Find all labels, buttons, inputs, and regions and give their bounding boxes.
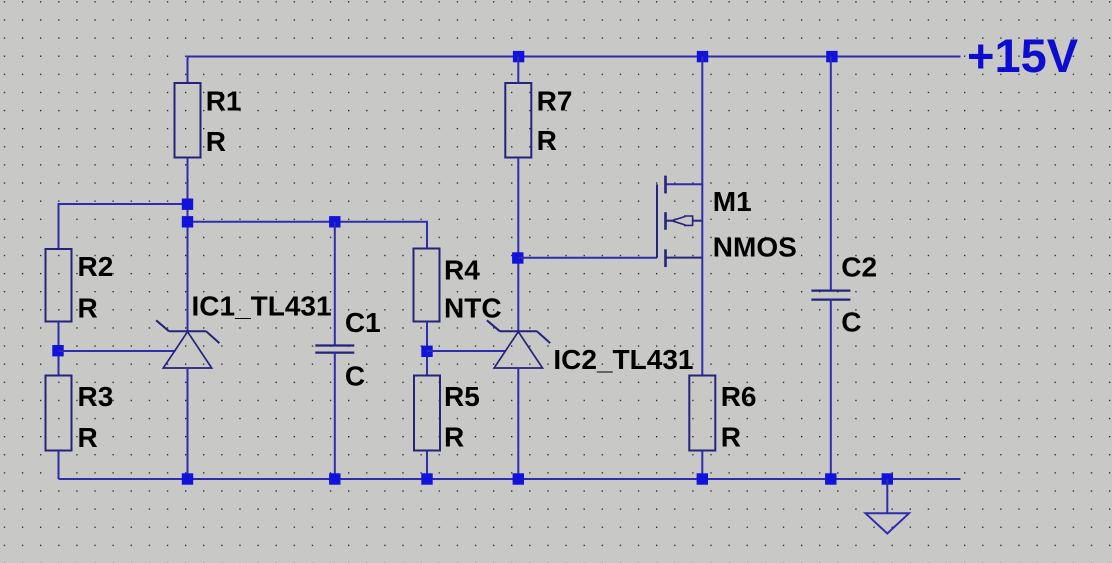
node ground rail IC1 bbox=[182, 473, 193, 484]
svg-text:R: R bbox=[444, 422, 464, 453]
shunt regulator IC1_TL431 bbox=[156, 320, 219, 368]
svg-text:IC2_TL431: IC2_TL431 bbox=[553, 344, 693, 375]
node C2 top junction bbox=[826, 51, 837, 62]
wire R1 bottom to IC1 cathode bbox=[187, 158, 189, 332]
resistor R3 bbox=[46, 376, 72, 451]
transistor M1 NMOS bbox=[657, 176, 702, 376]
wire to R2 top bbox=[59, 204, 188, 249]
wire R3 bottom to ground rail bbox=[58, 451, 60, 480]
wire M1 drain bbox=[666, 57, 703, 185]
wire C2 bottom to ground rail bbox=[830, 300, 832, 479]
wire junction to C1 and R4 bbox=[188, 222, 428, 248]
wire R4 bottom to R5 top bbox=[426, 322, 428, 376]
svg-text:R1: R1 bbox=[206, 86, 242, 117]
svg-text:R: R bbox=[206, 126, 226, 157]
resistor R1 bbox=[175, 83, 201, 158]
resistor R4 bbox=[414, 249, 440, 322]
svg-text:R4: R4 bbox=[444, 255, 480, 286]
svg-text:R5: R5 bbox=[444, 381, 480, 412]
svg-text:R: R bbox=[537, 125, 557, 156]
wire IC1 reference bbox=[59, 350, 176, 352]
wire ground stub bbox=[886, 479, 888, 513]
svg-text:IC1_TL431: IC1_TL431 bbox=[192, 290, 332, 321]
svg-text:R2: R2 bbox=[78, 251, 114, 282]
resistor R6 bbox=[689, 376, 715, 451]
wire R6 bottom to ground rail bbox=[701, 451, 703, 480]
resistor R2 bbox=[46, 249, 72, 322]
node ground rail R6 bbox=[697, 473, 708, 484]
node M1 drain top junction bbox=[697, 51, 708, 62]
svg-text:M1: M1 bbox=[713, 186, 752, 217]
svg-text:NTC: NTC bbox=[444, 292, 502, 323]
node ground rail GND bbox=[882, 473, 893, 484]
svg-text:C: C bbox=[345, 360, 365, 391]
node gate junction bbox=[512, 252, 523, 263]
svg-text:R: R bbox=[78, 293, 98, 324]
svg-text:R6: R6 bbox=[721, 381, 757, 412]
node R4-R5 junction bbox=[421, 346, 432, 357]
wire R5 bottom to ground rail bbox=[426, 451, 428, 480]
wire gate junction to M1 gate bbox=[518, 257, 657, 259]
capacitor C1 bbox=[315, 346, 354, 353]
node R7 top junction bbox=[513, 51, 524, 62]
resistor R7 bbox=[505, 83, 531, 158]
wire R7 bottom to IC2 cathode bbox=[517, 158, 519, 332]
wire R2 bottom to R3 top bbox=[58, 322, 60, 376]
capacitor C2 bbox=[811, 291, 850, 300]
node ground rail R5 bbox=[421, 473, 432, 484]
wire IC2 reference bbox=[427, 350, 506, 352]
node ground rail IC2 bbox=[513, 473, 524, 484]
wire IC2 anode to ground rail bbox=[517, 368, 519, 479]
svg-text:C1: C1 bbox=[345, 307, 381, 338]
wire IC1 anode to ground rail bbox=[187, 368, 189, 479]
svg-text:C2: C2 bbox=[841, 251, 877, 282]
wire C1 bottom to ground rail bbox=[334, 353, 336, 479]
wire +15V top rail bbox=[188, 57, 961, 84]
svg-text:NMOS: NMOS bbox=[713, 232, 797, 263]
node ground rail C1 bbox=[329, 473, 340, 484]
svg-text:+15V: +15V bbox=[967, 29, 1079, 82]
svg-text:C: C bbox=[841, 306, 861, 337]
svg-text:R: R bbox=[721, 422, 741, 453]
shunt regulator IC2_TL431 bbox=[487, 320, 550, 368]
wire ground rail bbox=[59, 478, 961, 480]
wire R7 top stub bbox=[517, 57, 519, 84]
ground symbol bbox=[866, 513, 910, 533]
node ground rail C2 bbox=[825, 473, 836, 484]
svg-text:R: R bbox=[78, 422, 98, 453]
wire C2 top bbox=[830, 57, 832, 291]
node R2-R3 junction bbox=[52, 345, 63, 356]
node C1 top junction bbox=[329, 216, 340, 227]
node R1-C1 branch junction bbox=[182, 216, 193, 227]
node R1-R2 junction bbox=[182, 199, 193, 210]
svg-text:R7: R7 bbox=[537, 86, 573, 117]
svg-text:R3: R3 bbox=[78, 381, 114, 412]
capacitor C1 top wire bbox=[334, 222, 336, 345]
resistor R5 bbox=[414, 376, 440, 451]
